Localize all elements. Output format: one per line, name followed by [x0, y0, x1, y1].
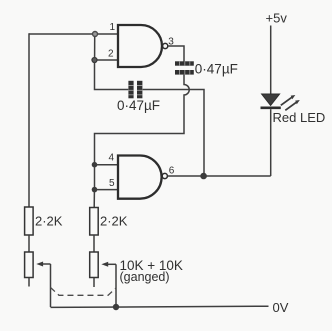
- node junction C2 branch on gate 2 output: [200, 173, 207, 180]
- svg-text:Red LED: Red LED: [273, 110, 326, 125]
- svg-text:+5v: +5v: [266, 10, 288, 25]
- resistor R2 2.2K: [90, 208, 99, 236]
- wire gate 1 input node to C2: [95, 63, 129, 90]
- wire R2 to VR2: [93, 235, 95, 252]
- wire VR2 unused end stub: [93, 278, 95, 288]
- node junction VR2 wiper on 0V rail: [113, 304, 119, 310]
- wire VR2 wiper to 0V rail: [115, 264, 117, 307]
- pin label 3: [168, 37, 174, 48]
- capacitor C2 0.47uF: [128, 81, 142, 99]
- label Red LED: [273, 110, 326, 125]
- wire pin 4: [95, 164, 119, 166]
- wire top rail: gate 1 input node: [29, 33, 92, 35]
- node pin 1 junction: [93, 32, 98, 37]
- wire VR1 unused end stub: [28, 278, 30, 287]
- wire pin 4 node to pin 5 node: [94, 166, 96, 188]
- wire +5V to LED anode: [270, 26, 272, 95]
- svg-text:1: 1: [110, 22, 116, 33]
- potentiometer VR2 track: [90, 252, 99, 278]
- wire pin 5 node down to R2: [93, 192, 95, 208]
- svg-text:0V: 0V: [273, 300, 289, 315]
- VR1 wiper arrow: [36, 262, 50, 267]
- node pin 4 junction: [92, 162, 98, 168]
- wire LED cathode to gate 2 output: [270, 109, 272, 176]
- svg-text:2·2K: 2·2K: [100, 214, 128, 229]
- svg-text:2: 2: [108, 48, 114, 59]
- value label C1 0.47uF: [195, 62, 238, 77]
- svg-text:0·47µF: 0·47µF: [117, 98, 160, 113]
- wire C2 to gate 2 output junction: [143, 90, 204, 175]
- svg-text:(ganged): (ganged): [120, 270, 170, 284]
- wire R1 to VR1: [28, 235, 30, 252]
- wire left rail down to R1: [28, 33, 30, 207]
- svg-text:2·2K: 2·2K: [35, 214, 63, 229]
- wire gate 1 output to C1: [168, 46, 184, 62]
- potentiometer VR1 track: [25, 252, 33, 278]
- node pin 5 junction: [92, 187, 98, 193]
- svg-text:6: 6: [169, 165, 175, 176]
- wire joining pin 1 and pin 2 junctions: [94, 37, 96, 57]
- NAND gate U1b: [118, 156, 167, 199]
- resistor R1 2.2K: [25, 207, 33, 235]
- LED light emission arrows: [281, 95, 300, 110]
- node pin 2 junction: [92, 58, 97, 63]
- value label C2 0.47uF: [117, 98, 160, 113]
- power label +5V: [266, 10, 288, 25]
- value label R1 2.2K: [35, 214, 63, 229]
- value label R2 2.2K: [100, 214, 128, 229]
- wire C1 to gate 2 inputs, hops over C2 wire: [95, 75, 190, 164]
- wire pin 2: [97, 59, 118, 61]
- pin label 2: [108, 48, 114, 59]
- wire pin 5: [95, 189, 119, 191]
- NAND gate U1a: [118, 25, 168, 67]
- capacitor C1 0.47uF: [175, 61, 194, 74]
- label (ganged): [120, 270, 170, 284]
- pin label 5: [109, 178, 115, 189]
- pin label 1: [110, 22, 116, 33]
- LED D1 (red): [261, 94, 281, 108]
- wire pin 1: [98, 33, 119, 35]
- label 0V: [273, 300, 289, 315]
- svg-text:4: 4: [109, 153, 115, 164]
- wire 0V rail: [51, 306, 269, 307]
- wire VR1 wiper to 0V rail: [50, 264, 52, 307]
- svg-text:5: 5: [109, 178, 115, 189]
- value label 10K + 10K: [120, 258, 183, 273]
- pin label 6: [169, 165, 175, 176]
- VR2 wiper arrow: [101, 262, 116, 267]
- svg-text:0·47µF: 0·47µF: [195, 62, 238, 77]
- wire gate 2 output to LED branch: [168, 175, 271, 177]
- ganged coupling dashed link VR1-VR2: [51, 288, 117, 296]
- pin label 4: [109, 153, 115, 164]
